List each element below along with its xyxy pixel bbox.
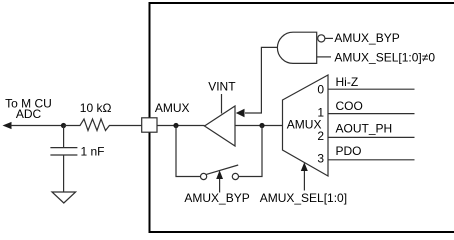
svg-text:COO: COO (336, 99, 363, 113)
svg-text:Hi-Z: Hi-Z (336, 75, 359, 89)
wire: gate output to buffer enable with arrowhead (236, 47, 277, 117)
buffer U1 (VINT powered, points left) (205, 79, 237, 146)
svg-text:2: 2 (317, 129, 324, 143)
svg-text:AMUX_BYP: AMUX_BYP (334, 31, 399, 45)
wire: To MCU ADC output with arrowhead (3, 122, 64, 129)
svg-text:1 nF: 1 nF (81, 145, 105, 159)
switch AMUX_BYP (bypass) (176, 126, 262, 180)
AND gate U2 (mirrored, bubble on top input) (277, 32, 333, 63)
label: To MCU ADC (5, 97, 52, 121)
node: junction dot to bypass switch (173, 123, 178, 128)
svg-text:AMUX_SEL[1:0]≠0: AMUX_SEL[1:0]≠0 (334, 50, 435, 64)
arrow: switch control (216, 170, 223, 192)
capacitor 1 nF (50, 126, 104, 193)
wire: mux input 0 Hi-Z (328, 75, 415, 89)
node: junction dot at R/C tap (61, 123, 66, 128)
node: junction dot to switch right side (259, 123, 264, 128)
svg-text:VINT: VINT (208, 79, 236, 93)
resistor 10 kOhm (64, 101, 142, 131)
svg-text:PDO: PDO (336, 144, 362, 158)
wire: mux output to buffer input (235, 125, 283, 127)
svg-text:10 kΩ: 10 kΩ (80, 101, 112, 115)
svg-text:ADC: ADC (16, 107, 42, 121)
wire: mux input 3 PDO (328, 144, 415, 160)
svg-text:3: 3 (317, 151, 324, 165)
arrow: mux select into mux bottom edge (301, 162, 308, 190)
ground (52, 192, 76, 203)
svg-text:AMUX: AMUX (287, 118, 322, 132)
svg-text:0: 0 (317, 82, 324, 96)
wire: mux input 1 COO (328, 99, 415, 114)
chip boundary (150, 3, 454, 232)
wire: pad to buffer output (157, 125, 205, 127)
wire: mux input 2 AOUT_PH (328, 121, 415, 137)
mux AMUX (trapezoid) (283, 75, 329, 176)
svg-text:1: 1 (317, 106, 324, 120)
pad AMUX (square on chip boundary) (142, 101, 190, 132)
svg-text:AMUX: AMUX (155, 101, 190, 115)
svg-text:AOUT_PH: AOUT_PH (336, 121, 393, 135)
svg-text:AMUX_SEL[1:0]: AMUX_SEL[1:0] (260, 191, 347, 205)
svg-text:AMUX_BYP: AMUX_BYP (184, 191, 249, 205)
